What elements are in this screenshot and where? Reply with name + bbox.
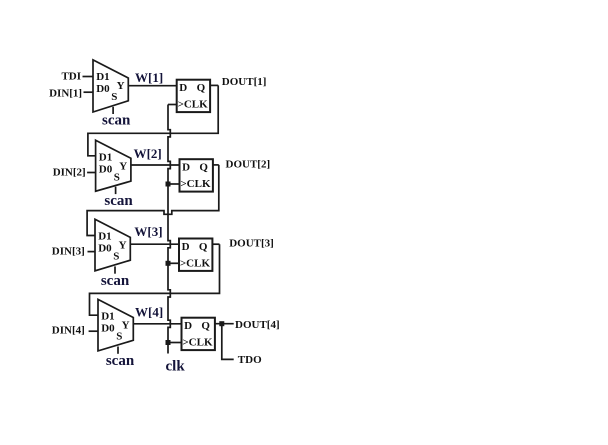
svg-text:Q: Q xyxy=(197,82,206,94)
svg-text:>CLK: >CLK xyxy=(178,99,209,111)
svg-text:W[4]: W[4] xyxy=(135,304,163,319)
svg-text:D1: D1 xyxy=(99,152,112,164)
svg-text:D1: D1 xyxy=(96,71,109,83)
svg-text:DIN[1]: DIN[1] xyxy=(49,88,82,100)
svg-text:Q: Q xyxy=(199,162,208,174)
svg-text:>CLK: >CLK xyxy=(182,337,213,349)
svg-text:W[2]: W[2] xyxy=(134,146,162,161)
svg-text:D: D xyxy=(184,320,192,332)
svg-text:S: S xyxy=(116,331,122,343)
svg-text:Q: Q xyxy=(201,320,210,332)
svg-text:D: D xyxy=(182,241,190,253)
svg-text:DIN[4]: DIN[4] xyxy=(52,324,85,336)
svg-text:>CLK: >CLK xyxy=(180,258,211,270)
svg-text:W[3]: W[3] xyxy=(134,224,162,239)
svg-text:S: S xyxy=(114,171,120,183)
svg-text:clk: clk xyxy=(166,359,186,375)
svg-text:D0: D0 xyxy=(99,163,113,175)
svg-text:>CLK: >CLK xyxy=(180,178,211,190)
svg-text:TDO: TDO xyxy=(238,354,262,366)
svg-text:D0: D0 xyxy=(98,242,112,254)
svg-text:DOUT[3]: DOUT[3] xyxy=(229,237,274,249)
svg-text:S: S xyxy=(113,251,119,263)
svg-text:DOUT[4]: DOUT[4] xyxy=(235,319,280,331)
svg-text:Y: Y xyxy=(119,240,127,252)
svg-text:scan: scan xyxy=(102,112,131,128)
svg-text:D: D xyxy=(179,82,187,94)
svg-text:DIN[3]: DIN[3] xyxy=(52,246,85,258)
svg-text:D: D xyxy=(182,162,190,174)
svg-text:scan: scan xyxy=(101,273,130,289)
svg-text:D0: D0 xyxy=(96,83,110,95)
svg-text:D0: D0 xyxy=(101,323,115,335)
svg-text:D1: D1 xyxy=(101,311,114,323)
svg-text:Q: Q xyxy=(199,241,208,253)
svg-text:Y: Y xyxy=(119,160,127,172)
svg-text:Y: Y xyxy=(122,320,130,332)
svg-text:W[1]: W[1] xyxy=(135,70,163,85)
svg-text:DIN[2]: DIN[2] xyxy=(53,167,86,179)
svg-text:DOUT[1]: DOUT[1] xyxy=(222,76,267,88)
svg-text:D1: D1 xyxy=(98,231,111,243)
svg-text:scan: scan xyxy=(104,193,133,209)
svg-text:DOUT[2]: DOUT[2] xyxy=(226,159,271,171)
svg-text:scan: scan xyxy=(106,353,135,369)
svg-text:S: S xyxy=(111,91,117,103)
svg-text:Y: Y xyxy=(117,80,125,92)
svg-text:TDI: TDI xyxy=(61,70,81,82)
